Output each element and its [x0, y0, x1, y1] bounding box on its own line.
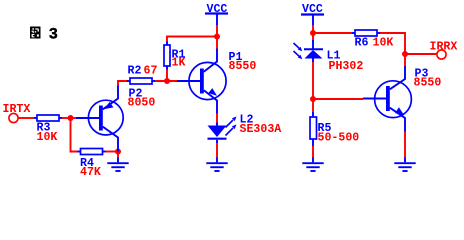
svg-text:VCC: VCC [302, 3, 323, 16]
svg-text:3: 3 [49, 25, 58, 43]
svg-text:47K: 47K [80, 166, 101, 179]
svg-text:R6: R6 [355, 37, 369, 50]
svg-text:SE303A: SE303A [240, 123, 282, 136]
svg-text:1K: 1K [172, 57, 186, 70]
svg-text:10K: 10K [373, 37, 394, 50]
svg-text:8550: 8550 [229, 60, 257, 73]
svg-text:10K: 10K [37, 131, 58, 144]
svg-text:8050: 8050 [128, 97, 156, 110]
svg-text:50-500: 50-500 [318, 132, 360, 145]
svg-text:IRRX: IRRX [430, 41, 458, 54]
svg-text:IRTX: IRTX [3, 103, 31, 116]
svg-text:R2: R2 [128, 65, 142, 78]
svg-text:8550: 8550 [414, 77, 442, 90]
svg-text:PH302: PH302 [329, 60, 364, 73]
svg-text:VCC: VCC [207, 3, 228, 16]
svg-text:67: 67 [144, 65, 158, 78]
